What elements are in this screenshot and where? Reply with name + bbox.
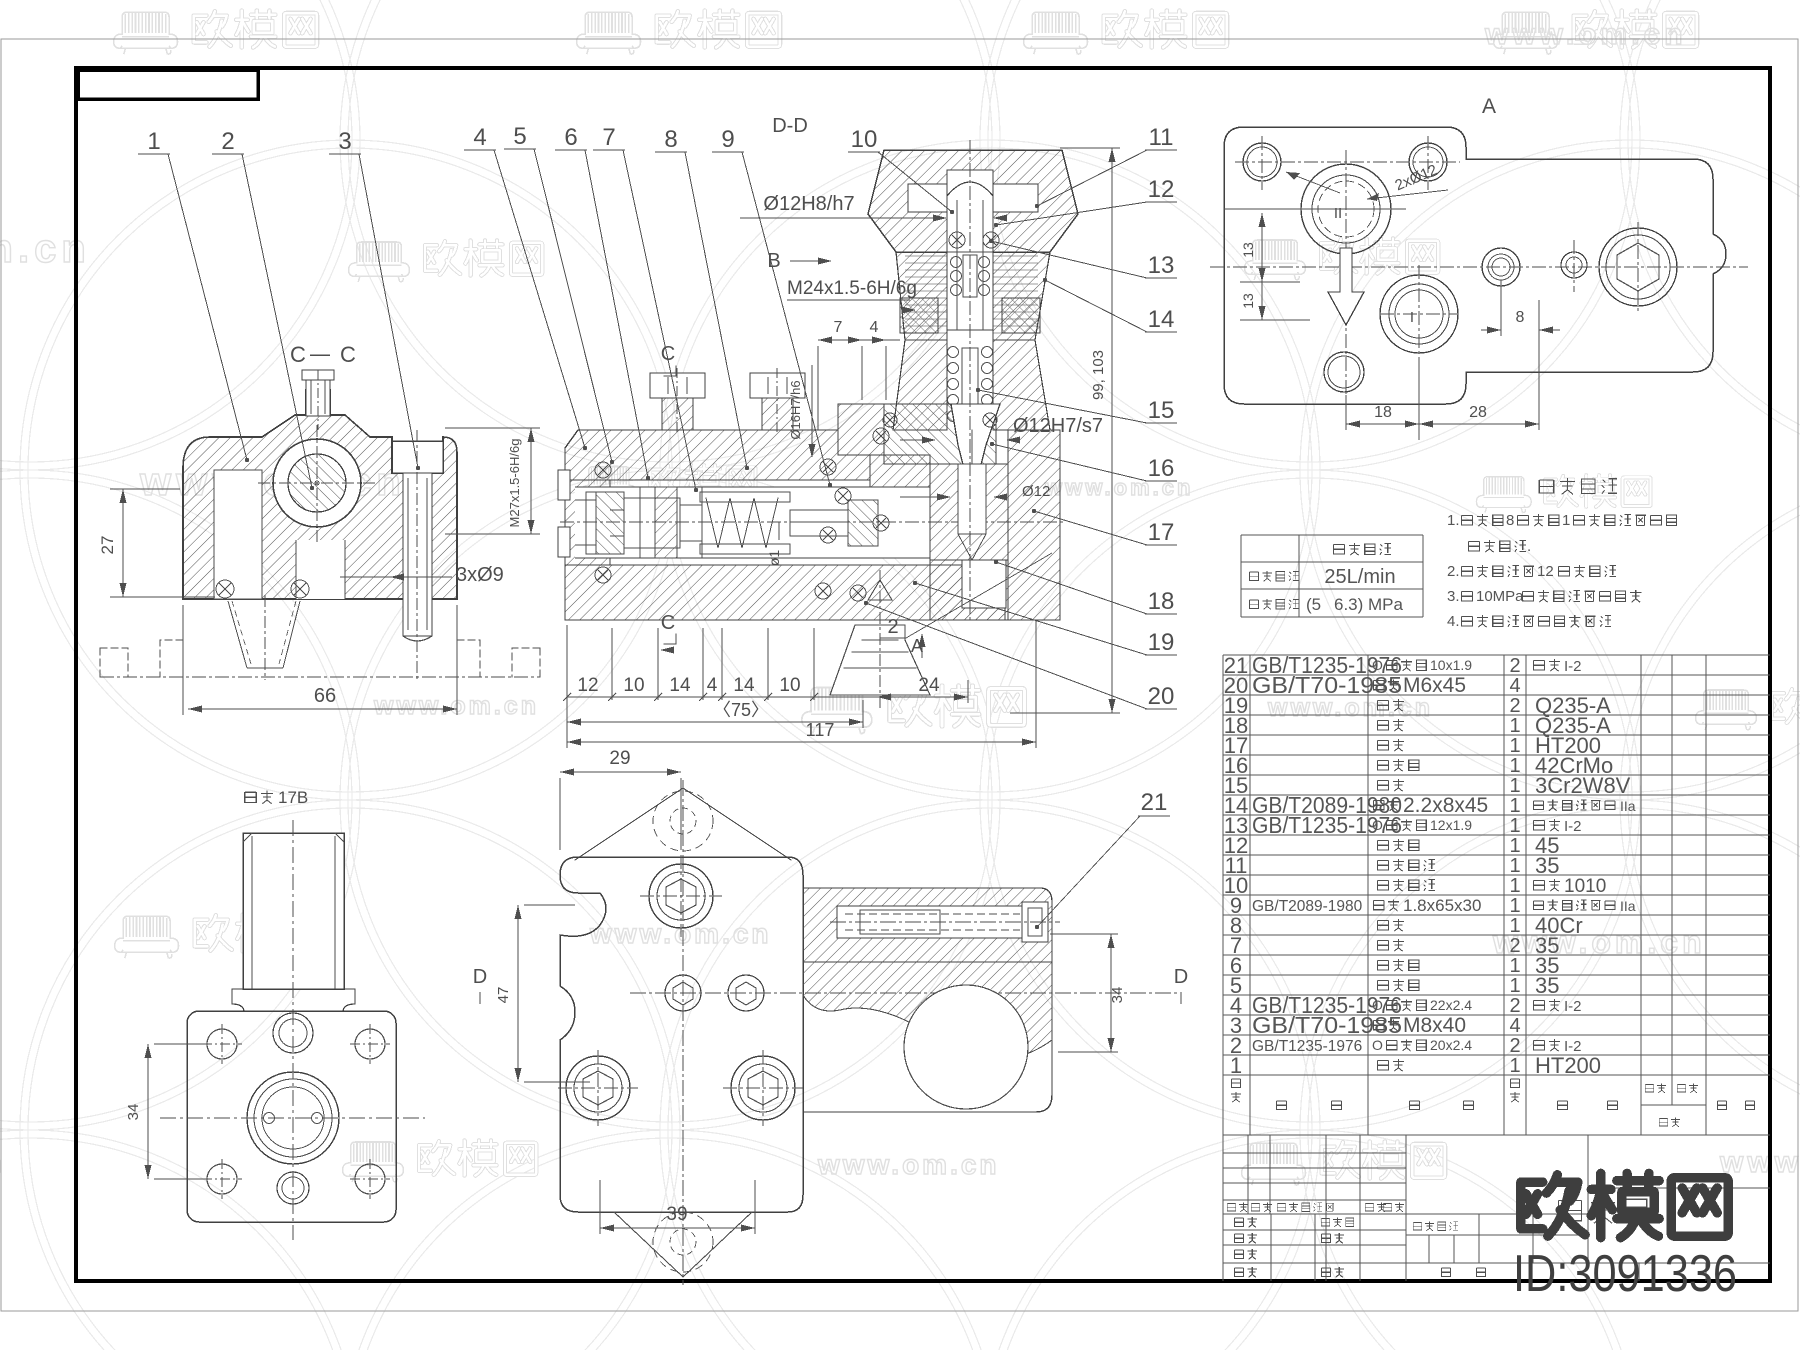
svg-text:O: O bbox=[1372, 997, 1383, 1013]
svg-text:34: 34 bbox=[1109, 987, 1126, 1004]
svg-text:14: 14 bbox=[733, 675, 755, 696]
svg-text:34: 34 bbox=[125, 1104, 142, 1121]
svg-text:.: . bbox=[1527, 538, 1531, 555]
svg-text:28: 28 bbox=[1469, 404, 1487, 421]
17B cylinder bbox=[243, 833, 344, 989]
svg-text:1: 1 bbox=[1509, 955, 1520, 977]
spool bbox=[596, 492, 624, 554]
17B flange bbox=[232, 989, 355, 1011]
svg-text:1.8x65x30: 1.8x65x30 bbox=[1403, 896, 1481, 915]
D bottom screws bbox=[566, 1056, 630, 1120]
A dims 18 28 bbox=[1346, 423, 1539, 425]
svg-text:www.om.cn: www.om.cn bbox=[1267, 694, 1433, 722]
svg-text:1: 1 bbox=[1509, 815, 1520, 837]
svg-text:C: C bbox=[340, 342, 356, 367]
cone valve bbox=[884, 404, 996, 464]
svg-text:M6x45: M6x45 bbox=[1403, 674, 1466, 697]
D dim 34r bbox=[1110, 934, 1112, 1052]
svg-text:6: 6 bbox=[564, 124, 577, 151]
svg-text:2.: 2. bbox=[1447, 563, 1460, 580]
svg-text:Ø12: Ø12 bbox=[1022, 483, 1050, 500]
svg-text:20x2.4: 20x2.4 bbox=[1430, 1037, 1472, 1053]
svg-text:1: 1 bbox=[1509, 975, 1520, 997]
D right extension bbox=[803, 888, 1052, 962]
svg-text:14: 14 bbox=[1148, 306, 1175, 333]
funnel bbox=[868, 580, 892, 600]
spring upper bbox=[951, 257, 962, 268]
svg-text:1: 1 bbox=[1509, 895, 1520, 917]
svg-text:2: 2 bbox=[1509, 935, 1520, 957]
perf table bbox=[1241, 535, 1423, 617]
BOM header bbox=[1231, 1079, 1240, 1087]
svg-text:14: 14 bbox=[669, 675, 691, 696]
main left cap bbox=[565, 480, 610, 565]
svg-text:IIa: IIa bbox=[1620, 898, 1636, 914]
svg-text:13: 13 bbox=[1240, 293, 1256, 309]
svg-text:27: 27 bbox=[98, 536, 117, 555]
svg-text:2: 2 bbox=[221, 128, 234, 155]
D dim 47 bbox=[517, 905, 519, 1082]
svg-text:13: 13 bbox=[1148, 252, 1175, 279]
svg-text:4: 4 bbox=[1509, 675, 1520, 697]
svg-text:1: 1 bbox=[1509, 775, 1520, 797]
svg-text:4: 4 bbox=[707, 675, 718, 696]
D mid hex plugs bbox=[665, 975, 701, 1011]
svg-text:O: O bbox=[1372, 817, 1383, 833]
bore extra internals bbox=[700, 492, 790, 502]
svg-text:HT200: HT200 bbox=[1535, 1053, 1601, 1078]
plug 21 bbox=[1022, 902, 1048, 942]
dim 117 bbox=[567, 741, 1036, 743]
svg-text:8: 8 bbox=[1516, 309, 1525, 326]
title texts bbox=[1227, 1203, 1235, 1210]
C-C dim 3xO9 bbox=[340, 576, 452, 578]
C-C dim 27 bbox=[122, 489, 124, 597]
D bottom lobe bbox=[614, 1212, 752, 1277]
svg-text:A: A bbox=[1482, 95, 1496, 118]
neck thread ticks bbox=[905, 256, 1038, 333]
svg-text:12: 12 bbox=[1537, 563, 1554, 580]
dim 99 103 bbox=[1111, 148, 1113, 713]
part 17B label bbox=[245, 792, 256, 802]
17B dim 34 bbox=[147, 1044, 149, 1179]
svg-text:M24x1.5-6H/6g: M24x1.5-6H/6g bbox=[787, 278, 917, 299]
svg-text:1: 1 bbox=[147, 128, 160, 155]
17B top bottom holes bbox=[273, 1013, 313, 1053]
svg-text:20: 20 bbox=[1148, 683, 1175, 710]
lower flanks bbox=[893, 340, 947, 430]
svg-text:1: 1 bbox=[1509, 755, 1520, 777]
C-C o-rings bbox=[216, 580, 234, 598]
C-C skirt bbox=[228, 601, 247, 668]
svg-text:66: 66 bbox=[314, 685, 336, 707]
svg-text:IIa: IIa bbox=[1620, 798, 1636, 814]
title block bbox=[1223, 1135, 1770, 1281]
svg-text:35: 35 bbox=[1535, 853, 1559, 878]
svg-text:4: 4 bbox=[870, 319, 879, 336]
svg-text:〈75〉: 〈75〉 bbox=[713, 700, 769, 720]
D view top lobe bbox=[575, 788, 791, 860]
C-C pockets bbox=[214, 470, 262, 599]
valve cover right bbox=[1008, 430, 1060, 620]
dark watermark logo bbox=[1559, 1200, 1582, 1220]
hollow arrow bbox=[1328, 248, 1364, 325]
svg-text:1: 1 bbox=[1509, 915, 1520, 937]
svg-text:www.om.cn: www.om.cn bbox=[817, 1149, 1000, 1180]
D top screw bbox=[649, 864, 713, 928]
svg-text:7: 7 bbox=[834, 319, 843, 336]
svg-text:www.om.cn: www.om.cn bbox=[589, 918, 772, 949]
svg-text:II: II bbox=[1334, 205, 1342, 222]
tech requirements bbox=[1539, 480, 1553, 493]
A circles bbox=[1243, 143, 1281, 181]
svg-text:29: 29 bbox=[609, 748, 630, 769]
dim 75 bbox=[567, 721, 863, 723]
svg-text:I-2: I-2 bbox=[1564, 998, 1582, 1015]
svg-text:10: 10 bbox=[623, 675, 644, 696]
svg-text:1: 1 bbox=[1230, 1053, 1242, 1078]
svg-text:GB/T2089-1980: GB/T2089-1980 bbox=[1252, 898, 1363, 915]
watermark logos bbox=[114, 12, 178, 54]
svg-text:2.2x8x45: 2.2x8x45 bbox=[1403, 794, 1488, 817]
svg-text:1010: 1010 bbox=[1564, 876, 1606, 897]
svg-text:C: C bbox=[290, 342, 306, 367]
C-C bolt M27 bbox=[392, 441, 443, 473]
svg-text:I-2: I-2 bbox=[1564, 818, 1582, 835]
svg-text:1: 1 bbox=[1509, 855, 1520, 877]
stem o-rings bbox=[949, 232, 965, 248]
svg-text:1: 1 bbox=[1562, 512, 1570, 529]
main-upper connector bbox=[870, 455, 930, 487]
extension body bbox=[803, 962, 1052, 1112]
svg-text:2: 2 bbox=[1509, 655, 1520, 677]
svg-text:1: 1 bbox=[1509, 875, 1520, 897]
neck flanks bbox=[896, 252, 947, 340]
svg-text:(5: (5 bbox=[1306, 595, 1321, 614]
svg-text:10x1.9: 10x1.9 bbox=[1430, 657, 1472, 673]
svg-text:4.: 4. bbox=[1447, 613, 1460, 630]
bottom dim chain bbox=[567, 696, 877, 698]
svg-text:4: 4 bbox=[473, 124, 486, 151]
svg-text:7: 7 bbox=[602, 124, 615, 151]
stud 1 bbox=[650, 373, 705, 398]
main section bottom wall bbox=[565, 565, 1005, 620]
top-left box bbox=[78, 70, 258, 99]
svg-text:18: 18 bbox=[1148, 588, 1175, 615]
main bore bbox=[575, 487, 930, 558]
svg-text:O: O bbox=[1372, 657, 1383, 673]
svg-text:4: 4 bbox=[1509, 1015, 1520, 1037]
svg-text:16: 16 bbox=[1148, 455, 1175, 482]
svg-text:12: 12 bbox=[577, 675, 598, 696]
17B plate bbox=[187, 1011, 396, 1222]
svg-text:Ø12H7/s7: Ø12H7/s7 bbox=[1013, 415, 1103, 437]
svg-text:www.om.cn: www.om.cn bbox=[1484, 18, 1687, 51]
svg-text:B: B bbox=[767, 250, 780, 272]
A centerlines bbox=[1210, 266, 1748, 268]
svg-text:9: 9 bbox=[721, 126, 734, 153]
svg-text:1: 1 bbox=[1509, 1055, 1520, 1077]
seat block bbox=[930, 464, 1008, 560]
svg-text:11: 11 bbox=[1149, 124, 1174, 151]
17B corner holes bbox=[207, 1029, 237, 1059]
svg-text:21: 21 bbox=[1141, 789, 1168, 816]
svg-text:10: 10 bbox=[779, 675, 800, 696]
stud 2 bbox=[750, 373, 805, 398]
svg-text:I-2: I-2 bbox=[1564, 658, 1582, 675]
dim 7 4 bbox=[818, 339, 900, 341]
svg-text:117: 117 bbox=[806, 720, 835, 740]
spring lower bbox=[948, 347, 959, 358]
svg-text:1: 1 bbox=[1509, 795, 1520, 817]
svg-text:D: D bbox=[1174, 966, 1188, 988]
svg-text:www.om.cn: www.om.cn bbox=[373, 692, 539, 720]
svg-text:24: 24 bbox=[918, 675, 940, 696]
C-C dim 66 bbox=[188, 708, 457, 710]
svg-text:www.om.cn: www.om.cn bbox=[1719, 1146, 1800, 1179]
svg-text:17: 17 bbox=[1148, 519, 1175, 546]
main section body top wall bbox=[565, 430, 870, 480]
svg-text:I: I bbox=[1410, 309, 1414, 326]
svg-text:3xØ9: 3xØ9 bbox=[456, 564, 504, 586]
M24 seals bbox=[900, 298, 938, 333]
main o-rings bbox=[595, 462, 611, 478]
svg-text:1: 1 bbox=[1509, 835, 1520, 857]
svg-text:25L/min: 25L/min bbox=[1324, 566, 1395, 588]
svg-text:M8x40: M8x40 bbox=[1403, 1014, 1466, 1037]
svg-text:1: 1 bbox=[1509, 735, 1520, 757]
BOM table bbox=[1223, 655, 1770, 1135]
svg-text:10: 10 bbox=[851, 126, 878, 153]
svg-text:M27x1.5-6H/6g: M27x1.5-6H/6g bbox=[507, 439, 522, 528]
svg-text:99, 103: 99, 103 bbox=[1090, 350, 1107, 400]
D dim 39 bbox=[600, 1227, 755, 1229]
svg-text:8: 8 bbox=[664, 126, 677, 153]
svg-text:5: 5 bbox=[513, 123, 526, 150]
svg-text:D: D bbox=[473, 966, 487, 988]
svg-text:2: 2 bbox=[1509, 695, 1520, 717]
D-D cap bbox=[868, 150, 1078, 252]
svg-text:1: 1 bbox=[1509, 715, 1520, 737]
svg-text:6.3) MPa: 6.3) MPa bbox=[1334, 595, 1404, 614]
svg-text:C: C bbox=[661, 612, 675, 634]
svg-text:39: 39 bbox=[666, 1204, 687, 1225]
17B center bore bbox=[247, 1072, 339, 1164]
svg-text:15: 15 bbox=[1148, 397, 1175, 424]
svg-text:47: 47 bbox=[495, 987, 512, 1004]
A dims 13 13 bbox=[1261, 213, 1263, 320]
svg-text:10MPa: 10MPa bbox=[1476, 588, 1524, 605]
svg-text:Ø12H8/h7: Ø12H8/h7 bbox=[763, 193, 854, 215]
svg-text:2: 2 bbox=[1509, 995, 1520, 1017]
svg-text:3.: 3. bbox=[1447, 588, 1460, 605]
svg-text:O: O bbox=[1372, 1037, 1383, 1053]
svg-text:22x2.4: 22x2.4 bbox=[1430, 997, 1472, 1013]
svg-text:12: 12 bbox=[1148, 176, 1175, 203]
stem bbox=[947, 170, 993, 330]
svg-text:19: 19 bbox=[1148, 629, 1175, 656]
svg-text:GB/T1235-1976: GB/T1235-1976 bbox=[1252, 1038, 1362, 1055]
svg-text:35: 35 bbox=[1535, 973, 1559, 998]
svg-text:Ø16H7/h6: Ø16H7/h6 bbox=[788, 380, 803, 439]
dim 24 bbox=[877, 696, 968, 698]
C-C stud bbox=[306, 376, 330, 416]
svg-text:13: 13 bbox=[1240, 242, 1256, 258]
C-C bore bbox=[273, 439, 361, 527]
D dim 29 bbox=[560, 771, 681, 773]
svg-text:ø1: ø1 bbox=[766, 550, 782, 567]
svg-text:2: 2 bbox=[1509, 1035, 1520, 1057]
svg-text:12x1.9: 12x1.9 bbox=[1430, 817, 1472, 833]
svg-text:8: 8 bbox=[1506, 512, 1514, 529]
view A outline bbox=[1224, 127, 1726, 404]
svg-text:D-D: D-D bbox=[772, 115, 808, 137]
svg-text:18: 18 bbox=[1374, 404, 1392, 421]
D view plate bbox=[560, 857, 803, 1212]
svg-text:2: 2 bbox=[887, 616, 898, 638]
svg-text:3Cr2W8V: 3Cr2W8V bbox=[1535, 773, 1631, 798]
svg-text:17B: 17B bbox=[278, 788, 308, 807]
svg-text:ID:3091336: ID:3091336 bbox=[1513, 1245, 1737, 1303]
svg-text:1.: 1. bbox=[1447, 512, 1460, 529]
svg-text:3: 3 bbox=[338, 128, 351, 155]
